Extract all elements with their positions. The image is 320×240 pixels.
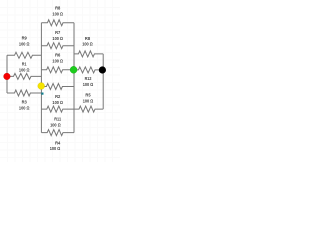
node green <box>70 66 77 73</box>
resistor R9 100 Ω <box>7 35 41 58</box>
svg-text:100 Ω: 100 Ω <box>83 82 94 87</box>
svg-text:R4: R4 <box>55 140 61 145</box>
resistor R4 100 Ω <box>41 130 74 151</box>
resistor R10 100 Ω <box>74 36 103 57</box>
svg-text:R8: R8 <box>55 6 61 11</box>
svg-text:100 Ω: 100 Ω <box>52 11 63 16</box>
resistor R5 100 Ω <box>74 93 103 113</box>
svg-text:R11: R11 <box>54 117 61 122</box>
resistor R6 100 Ω <box>41 53 74 73</box>
wire left rail <box>6 55 8 93</box>
wire right rail <box>102 54 104 109</box>
svg-text:R1: R1 <box>22 62 27 67</box>
svg-text:R12: R12 <box>85 76 92 81</box>
svg-text:R9: R9 <box>22 35 28 40</box>
svg-text:R6: R6 <box>55 53 61 58</box>
node red <box>4 73 11 80</box>
node teal junction marker <box>41 93 43 95</box>
svg-text:R3: R3 <box>22 99 28 104</box>
svg-text:100 Ω: 100 Ω <box>82 42 93 47</box>
svg-text:100 Ω: 100 Ω <box>19 105 30 110</box>
svg-text:100 Ω: 100 Ω <box>52 59 63 64</box>
svg-text:100 Ω: 100 Ω <box>52 100 63 105</box>
svg-text:R7: R7 <box>55 30 61 35</box>
svg-text:100 Ω: 100 Ω <box>19 68 30 73</box>
svg-text:100 Ω: 100 Ω <box>83 98 94 103</box>
svg-text:100 Ω: 100 Ω <box>50 146 61 151</box>
svg-text:R8: R8 <box>85 36 91 41</box>
resistor R3 100 Ω <box>7 90 41 110</box>
node yellow <box>38 83 45 90</box>
resistor R1 100 Ω <box>7 62 41 80</box>
wire middle-right rail <box>73 23 75 133</box>
wire middle-left rail <box>40 23 42 133</box>
resistor R12 100 Ω <box>74 67 102 87</box>
svg-text:100 Ω: 100 Ω <box>19 41 30 46</box>
resistor R7 100 Ω <box>41 30 74 49</box>
svg-text:R5: R5 <box>85 93 91 98</box>
svg-text:100 Ω: 100 Ω <box>50 122 61 127</box>
node black <box>99 66 106 73</box>
resistor R11 100 Ω <box>41 106 74 127</box>
resistor R2 100 Ω <box>41 84 74 105</box>
svg-text:R2: R2 <box>55 94 61 99</box>
svg-text:100 Ω: 100 Ω <box>52 36 63 41</box>
resistor R8 100 Ω <box>41 6 74 26</box>
